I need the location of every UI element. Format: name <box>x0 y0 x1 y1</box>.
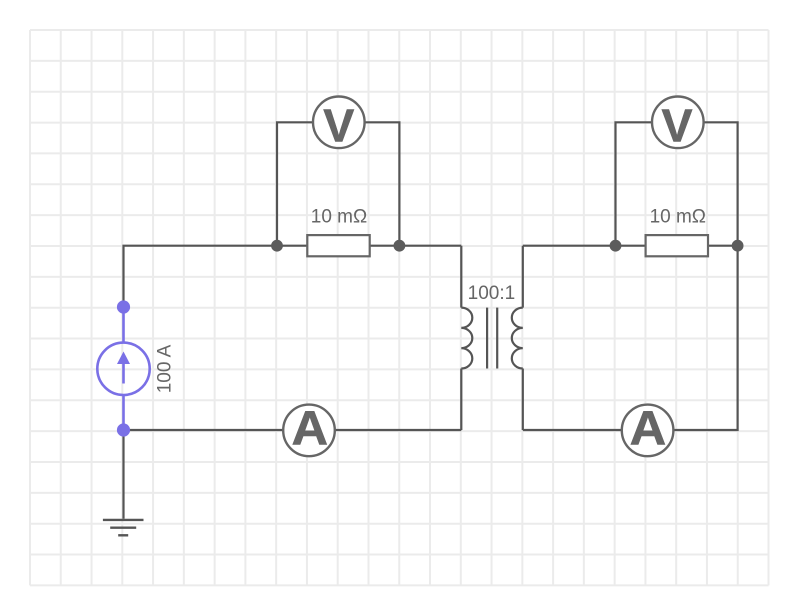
wire: right voltmeter branch right side <box>704 122 738 245</box>
wire: right resistor to right dot <box>708 245 738 247</box>
transformer primary winding <box>461 308 472 369</box>
node: current source bottom terminal (blue) <box>117 423 130 436</box>
resistor: left shunt 10 mOhm <box>307 235 369 256</box>
svg-text:10 mΩ: 10 mΩ <box>650 206 706 227</box>
wire: bottom left from source dot to ammeter <box>124 429 284 431</box>
svg-text:100:1: 100:1 <box>468 283 516 304</box>
transformer T1 100:1 <box>461 246 523 430</box>
wire: right ammeter to right vertical corner <box>674 246 738 430</box>
resistor: right shunt 10 mOhm <box>646 235 708 256</box>
svg-text:10 mΩ: 10 mΩ <box>311 206 367 227</box>
node: left resistor right junction <box>394 240 406 252</box>
voltmeter: right V meter <box>652 97 704 152</box>
svg-text:V: V <box>323 100 354 152</box>
wire: left loop top corner from current source to left resistor <box>124 246 308 307</box>
voltmeter: left V meter <box>313 97 365 152</box>
wire: left resistor to transformer primary <box>370 245 462 247</box>
wire: left voltmeter branch left side <box>277 122 313 245</box>
ground <box>103 520 144 535</box>
wire: ground stem <box>122 430 124 519</box>
wire: transformer secondary to right resistor <box>523 245 646 247</box>
ammeter: left A meter <box>283 402 335 456</box>
wire: left voltmeter branch right side <box>365 122 400 245</box>
node: current source top terminal (blue) <box>117 300 130 313</box>
svg-text:100 A: 100 A <box>155 344 176 393</box>
transformer secondary leads <box>522 246 524 430</box>
transformer secondary winding <box>512 308 523 369</box>
node: right resistor right junction <box>732 240 744 252</box>
current source 100 A <box>97 307 149 430</box>
svg-text:A: A <box>292 402 329 455</box>
ammeter: right A meter <box>622 402 674 456</box>
node: left resistor left junction <box>271 240 283 252</box>
node: right resistor left junction <box>610 240 622 252</box>
wire: right voltmeter branch left side <box>616 122 653 245</box>
svg-text:A: A <box>630 402 667 455</box>
transformer core <box>487 308 497 369</box>
wire: left ammeter to transformer primary bottom <box>335 429 461 431</box>
svg-text:V: V <box>661 100 692 152</box>
transformer primary leads <box>460 246 462 430</box>
wire: transformer secondary bottom to right ammeter <box>523 429 622 431</box>
